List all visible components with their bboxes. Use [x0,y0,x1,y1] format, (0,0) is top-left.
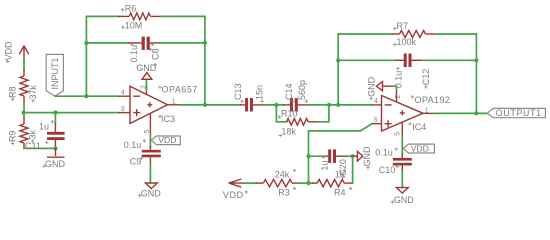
capacitor C8 [128,37,161,50]
junction C8 right [203,41,207,45]
svg-text:R4: R4 [334,188,346,198]
svg-text:5: 5 [144,130,151,134]
ground arrow left of IC4 [376,82,392,91]
wire VDD to R8 [23,60,25,70]
svg-text:0.1u: 0.1u [129,45,139,63]
junction R7/C12 left vertical on signal wire [336,103,340,107]
svg-text:GND: GND [141,188,162,198]
svg-text:R8: R8 [8,86,18,98]
capacitor C10 [393,153,412,173]
junction C11 bottom / R9 [53,146,57,150]
wire R10 left vertical [276,105,287,122]
wire R7 row left segment [338,33,392,35]
resistor R7 [391,31,436,38]
resistor R8 [20,70,28,104]
resistor R3 [256,179,300,186]
origin daggers (label origin crosses) [6,8,428,204]
wire R7 row right segment [436,33,476,35]
wire C12 row right segment [423,59,477,61]
junction C12 right [474,58,478,62]
svg-text:C9: C9 [130,156,142,166]
wire IC4 pin3 network: node to diagonal [309,124,372,183]
wire IC4 pin5 down [401,137,403,154]
capacitor C13 [240,98,266,112]
wire IC3 pin5 down [149,134,151,147]
junction feedback to output [474,111,478,115]
junction R10 right top [327,103,331,107]
svg-text:1: 1 [425,107,429,114]
resistor R9 [20,118,28,149]
op-amp IC3 OPA657 [118,86,182,134]
svg-text:C14: C14 [284,83,294,100]
svg-text:560p: 560p [297,80,307,100]
svg-text:OPA192: OPA192 [415,95,451,105]
svg-text:IC3: IC3 [161,114,175,124]
wire IC3 output to C13 [182,104,240,106]
svg-text:R6: R6 [125,4,137,14]
wire C12 row left segment [338,59,396,61]
ground GND (bar style) below C11 [47,148,65,157]
svg-text:0.1u: 0.1u [375,148,393,158]
wire IC4 feedback right vertical [475,34,477,113]
svg-text:R9: R9 [8,130,18,142]
ground arrow above IC3 [142,73,152,80]
resistor R10 [287,118,319,125]
svg-text:R7: R7 [397,21,409,31]
svg-text:OPA657: OPA657 [162,85,198,95]
capacitor C9 [142,146,161,165]
capacitor C14 [283,98,308,112]
junction feedback tap on pin4 wire [84,94,88,98]
svg-text:GND: GND [45,159,66,169]
svg-text:C20: C20 [338,159,348,176]
net flag VDD at IC4 pin5 [403,144,434,154]
svg-text:R10: R10 [281,109,298,119]
svg-text:1u: 1u [39,121,49,131]
svg-text:C13: C13 [233,83,243,100]
svg-text:15n: 15n [254,85,264,100]
supply VDD arrow (bottom, points left) [228,179,244,187]
wire R6 right to feedback right vertical [161,15,205,17]
svg-text:3: 3 [373,117,377,124]
junction node A (C13/C14/R10) [274,103,278,107]
resistor R4 [312,179,352,186]
svg-text:C10: C10 [379,165,396,175]
svg-text:4: 4 [121,90,125,97]
ground arrow below C9 [145,183,157,189]
junction node B (R3/R4/pin3 net) [306,181,310,185]
svg-text:3: 3 [121,106,125,113]
svg-text:INPUT1: INPUT1 [50,57,60,89]
net flag VDD at IC3 pin5 [151,135,180,145]
resistor R6 [118,13,161,20]
svg-text:18k: 18k [281,127,296,137]
wire C20 right to ground [346,155,352,157]
svg-text:0.1u: 0.1u [124,140,142,150]
svg-text:R3: R3 [278,188,290,198]
wire C10 to ground [401,172,403,187]
svg-text:OUTPUT1: OUTPUT1 [496,108,542,118]
svg-text:GND: GND [394,195,415,205]
wire R9 bottom to ground node [24,147,56,149]
svg-text:1u: 1u [319,161,329,171]
junction C20 row on pin3 vertical [306,154,310,158]
svg-text:GND: GND [367,76,377,97]
svg-text:37k: 37k [28,84,38,99]
wire IC4 output to OUTPUT1 [435,112,488,114]
wire feedback top left segment to R6 [86,15,118,17]
junction C8 left [84,41,88,45]
svg-text:24k: 24k [275,170,290,180]
svg-text:GND: GND [362,146,372,167]
capacitor C12 [396,54,423,68]
ground arrow below C10 [396,188,408,194]
svg-text:4: 4 [374,98,378,105]
wire C8 row right segment [161,42,205,44]
svg-text:1: 1 [172,98,176,105]
wire INPUT1 to IC3 pin4 [55,95,118,97]
wire R4 right end up to ground row [352,156,354,183]
wire R10 right vertical to signal wire [318,105,329,122]
wire C13 to node A [266,104,284,106]
wire R3 to node B [299,182,313,184]
svg-text:10M: 10M [125,21,143,31]
junction R4 top / C20 ground row [351,154,355,158]
junction feedback to output wire [203,103,207,107]
wire IC3 pin2 to ground [146,79,148,89]
wire divider node down to R9 [23,113,25,118]
junction C11 top [53,111,57,115]
svg-text:C12: C12 [421,69,431,86]
wire R8 to divider node [23,104,25,113]
svg-text:VDD: VDD [158,135,176,145]
svg-text:C8: C8 [151,48,161,60]
svg-text:3k: 3k [28,129,38,139]
wire C9 to ground [149,164,151,183]
wire C14 to IC4 pin4 [307,104,372,106]
wire feedback right vertical [204,16,206,105]
wire IC4 pin2 to ground [392,86,397,89]
svg-text:100k: 100k [397,37,417,47]
wire C8 row left segment [86,42,128,44]
svg-text:IC4: IC4 [412,122,426,132]
wire C20 left segment [309,155,327,157]
svg-text:5: 5 [395,132,402,136]
net flag INPUT1 [46,54,63,96]
ground arrow right of C20 [353,151,363,161]
supply VDD arrow (top-left) [19,46,28,61]
svg-text:VDD: VDD [411,144,429,154]
net flag OUTPUT1 [487,108,545,118]
wire divider node to C11 node to IC3 pin3 [24,112,119,114]
junction C12 left [336,58,340,62]
svg-text:2: 2 [395,95,402,99]
svg-text:VDD: VDD [4,41,14,61]
wire VDD to R3 [244,182,256,184]
wire IC4 feedback left vertical [337,34,339,105]
svg-text:VDD: VDD [223,190,244,200]
node divider junction [22,111,26,115]
capacitor C11 [47,113,65,149]
wire feedback left vertical [85,16,87,96]
op-amp IC4 OPA192 [372,89,435,138]
capacitor C20 [326,149,347,163]
